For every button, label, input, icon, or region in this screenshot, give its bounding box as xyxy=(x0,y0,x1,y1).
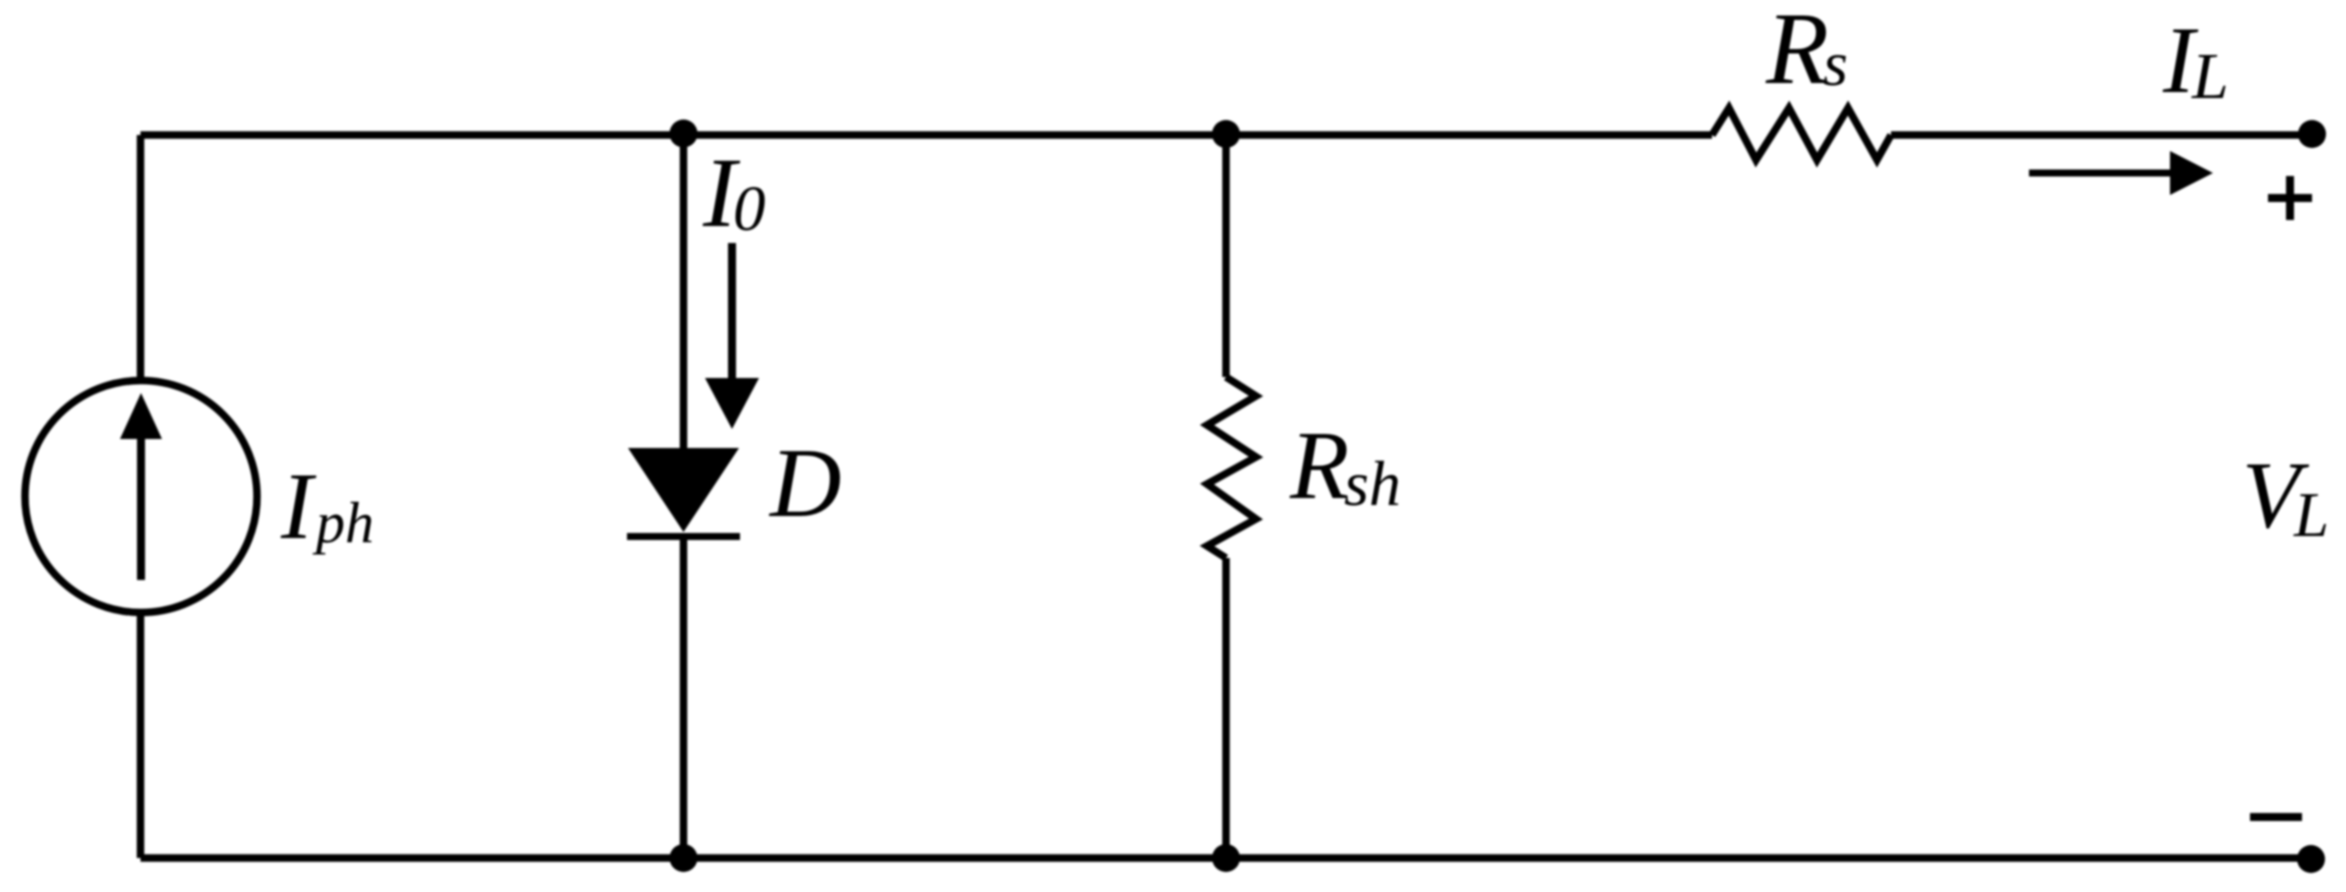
junction dot: bottom node at diode xyxy=(670,844,698,872)
wire: left vertical from current source to bottom rail xyxy=(137,613,145,858)
svg-text:s: s xyxy=(1823,28,1848,99)
arrow IL (load current) xyxy=(2029,151,2213,195)
wire: diode branch anode (top rail to diode) xyxy=(680,135,688,450)
junction dot: bottom node at Rsh xyxy=(1212,844,1240,872)
current source Iph circle xyxy=(25,381,257,613)
svg-text:sh: sh xyxy=(1344,448,1401,519)
wire: top rail right segment (Rs to + terminal) xyxy=(1891,131,2312,139)
svg-text:L: L xyxy=(2293,480,2329,550)
svg-text:L: L xyxy=(2191,40,2229,113)
svg-text:R: R xyxy=(1289,412,1349,519)
current source Iph arrow xyxy=(120,393,162,580)
junction dot: top node at diode xyxy=(670,120,698,148)
wire: Rsh branch top (top rail to resistor) xyxy=(1222,135,1230,377)
wire: bottom rail xyxy=(141,854,2312,862)
resistor Rs xyxy=(1712,108,1891,160)
terminal dot: + output xyxy=(2298,120,2326,148)
arrow I0 (diode saturation current) xyxy=(705,243,759,429)
svg-text:ph: ph xyxy=(312,490,374,555)
terminal dot: - output xyxy=(2297,845,2325,873)
junction dot: top node at Rsh xyxy=(1212,120,1240,148)
label - (negative terminal) xyxy=(2250,813,2302,821)
wire: Rsh branch bottom (resistor to bottom rail) xyxy=(1222,558,1230,858)
svg-text:R: R xyxy=(1765,0,1829,106)
diode D cathode bar xyxy=(627,533,740,540)
resistor Rsh xyxy=(1207,377,1256,558)
wire: top rail left segment (top node to Rs) xyxy=(141,131,1713,139)
wire: left vertical from top rail to current source xyxy=(137,135,145,380)
wire: diode branch cathode (diode to bottom rail) xyxy=(680,537,688,858)
diode D triangle xyxy=(628,448,739,532)
svg-text:0: 0 xyxy=(733,173,766,245)
svg-text:D: D xyxy=(768,429,842,538)
label + (positive terminal) xyxy=(2268,176,2312,220)
svg-text:I: I xyxy=(280,453,317,559)
